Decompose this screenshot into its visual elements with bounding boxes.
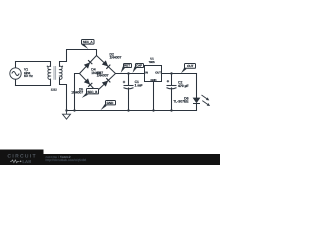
net label CAP [133, 63, 144, 73]
transformer T1 [48, 66, 62, 79]
wire V1 primary loop bottom [16, 79, 51, 85]
svg-text:1N4007: 1N4007 [97, 73, 109, 77]
plus sign C1 [123, 81, 125, 83]
wire V1 left bottom [15, 79, 17, 85]
label U1 [149, 58, 155, 64]
wire U1 GND drop [153, 82, 155, 111]
svg-text:OUT: OUT [155, 72, 161, 75]
svg-text:1212: 1212 [51, 89, 57, 92]
wire V1 left top [15, 62, 17, 68]
net label GND [101, 101, 116, 111]
diode D5 [84, 78, 92, 86]
op-amp U1 regulator box [145, 66, 162, 82]
watermark logo block [0, 150, 44, 166]
label V1 [24, 67, 33, 78]
ground [63, 111, 71, 120]
bridge arm top-left [80, 56, 97, 74]
wire bottom rail [67, 110, 197, 112]
svg-text:SEC_A: SEC_A [83, 40, 93, 44]
bridge arm bottom-left [80, 74, 97, 92]
capacitor C2 [167, 86, 177, 89]
label C2 [178, 81, 189, 89]
label D3 [97, 71, 109, 78]
wire bridge left vertex to rail [75, 74, 80, 111]
svg-text:OUT: OUT [187, 64, 194, 68]
bridge arm bottom-right [97, 74, 116, 92]
svg-text:60 Hz: 60 Hz [24, 74, 33, 78]
wire bridge right vertex to U1 IN [116, 73, 145, 75]
svg-text:SEC_B: SEC_B [87, 90, 97, 94]
svg-text:1N4007: 1N4007 [71, 90, 83, 94]
U1 pin labels [145, 72, 161, 83]
wire C2 drop [171, 74, 173, 86]
logo text LAB [10, 159, 31, 164]
diode D3 [102, 78, 110, 86]
secondary winding [60, 66, 63, 79]
diode D2 [102, 60, 110, 68]
net label OUT [181, 64, 196, 74]
transformer polarity dots [47, 66, 63, 67]
net label SEC_B [82, 89, 99, 98]
svg-text:7805: 7805 [149, 61, 155, 64]
svg-text:TL-307EE: TL-307EE [173, 99, 189, 103]
label D4 [91, 67, 103, 75]
svg-text:1N4007: 1N4007 [110, 56, 122, 60]
svg-text:GND: GND [151, 79, 157, 82]
svg-text:CAP: CAP [136, 63, 142, 67]
junction dots [65, 72, 172, 111]
diode D4 [84, 60, 92, 68]
label D6 [173, 96, 189, 103]
LED arrows [202, 95, 211, 106]
svg-text:IN: IN [145, 72, 148, 75]
net label SEC_A [81, 40, 94, 50]
svg-text:GND: GND [107, 101, 115, 105]
svg-text:1 mF: 1 mF [135, 84, 143, 88]
wire secondary top to bridge [60, 50, 97, 67]
svg-text:LAB: LAB [23, 159, 32, 164]
primary winding [48, 66, 51, 79]
wire secondary bottom to rail [60, 78, 67, 111]
watermark bar [0, 154, 220, 165]
transformer core [54, 66, 56, 80]
wire C1 drop [128, 74, 130, 86]
svg-text:http://circuitlab.com/c/q5486: http://circuitlab.com/c/q5486 [46, 158, 87, 162]
net label RET [121, 63, 132, 73]
bridge arm top-right [97, 56, 116, 74]
label D5 [71, 88, 83, 95]
label C1 [135, 80, 143, 87]
label D2 [110, 53, 122, 60]
wire V1 primary loop top [16, 62, 51, 67]
wire U1 OUT to corner [162, 73, 197, 75]
svg-text:470 µF: 470 µF [178, 84, 189, 88]
capacitor C1 [124, 86, 134, 89]
voltage source V1 [10, 68, 21, 79]
svg-text:CIRCUIT: CIRCUIT [8, 154, 38, 159]
wire LED branch [196, 74, 198, 98]
svg-text:RET: RET [124, 63, 130, 67]
LED D6 [193, 98, 201, 104]
plus sign C2 [167, 80, 169, 82]
